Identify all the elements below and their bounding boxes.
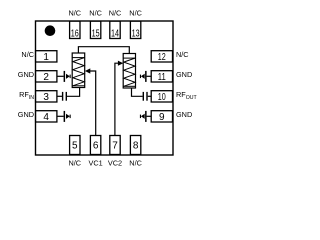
pin 8 xyxy=(130,136,140,155)
wire pin 2 to ground cap xyxy=(57,75,64,77)
wire pin 11 to ground cap xyxy=(147,75,152,77)
pin 5 xyxy=(70,136,80,155)
svg-text:VC2: VC2 xyxy=(108,159,122,168)
ground arrow pin 9 xyxy=(140,114,145,119)
wire C2 to pin 10 xyxy=(148,95,152,97)
svg-text:15: 15 xyxy=(92,28,100,39)
pin 14 xyxy=(110,21,120,39)
pin 12 xyxy=(151,51,172,63)
svg-text:GND: GND xyxy=(176,110,192,119)
ground arrow pin 11 xyxy=(140,74,145,79)
pin 16 xyxy=(70,21,80,39)
pin 9 xyxy=(151,111,172,123)
wire VC2 pin 7 to R2 arrow xyxy=(115,63,118,135)
wire pin 4 to ground cap xyxy=(57,115,64,117)
svg-text:4: 4 xyxy=(43,112,49,123)
svg-text:N/C: N/C xyxy=(69,159,82,168)
svg-text:N/C: N/C xyxy=(69,9,82,18)
pin 1 indicator dot xyxy=(45,25,56,36)
svg-text:2: 2 xyxy=(43,72,49,83)
svg-text:1: 1 xyxy=(43,52,49,63)
svg-text:7: 7 xyxy=(112,141,118,152)
pin 10 xyxy=(151,91,172,103)
ground plate pin 11 xyxy=(145,71,147,82)
pin 11 xyxy=(151,71,172,83)
wire VC1 pin 6 to R1 arrow xyxy=(90,71,96,136)
svg-text:N/C: N/C xyxy=(89,9,102,18)
svg-text:14: 14 xyxy=(111,28,119,39)
pin 2 xyxy=(36,71,57,83)
svg-text:N/C: N/C xyxy=(109,9,122,18)
wire pin 3 to capacitor C1 xyxy=(57,95,62,97)
svg-text:N/C: N/C xyxy=(129,9,142,18)
pin 1 xyxy=(36,51,57,63)
ground arrow pin 2 xyxy=(66,74,71,79)
pin 4 xyxy=(36,111,57,123)
pin 13 xyxy=(130,21,140,39)
arrow into R1 xyxy=(85,68,90,73)
package outline U1 xyxy=(36,21,174,155)
svg-text:GND: GND xyxy=(176,70,192,79)
ground plate pin 4 xyxy=(64,111,66,122)
svg-text:N/C: N/C xyxy=(21,50,34,59)
svg-text:12: 12 xyxy=(158,52,166,63)
pin 7 xyxy=(110,136,120,155)
ground arrow pin 4 xyxy=(66,114,71,119)
ground plate pin 9 xyxy=(145,111,147,122)
capacitor C2 xyxy=(143,92,148,101)
svg-text:13: 13 xyxy=(132,28,140,39)
svg-text:GND: GND xyxy=(18,70,34,79)
pin 6 xyxy=(90,136,100,155)
svg-text:16: 16 xyxy=(71,28,79,39)
svg-text:3: 3 xyxy=(43,92,49,103)
svg-text:VC1: VC1 xyxy=(88,159,102,168)
wire R2 bottom to capacitor C2 xyxy=(132,88,143,96)
ground plate pin 2 xyxy=(64,71,66,82)
capacitor C1 xyxy=(62,92,67,101)
arrow into R2 xyxy=(118,61,123,66)
wire C1 to R1 bottom xyxy=(67,88,80,97)
svg-text:6: 6 xyxy=(93,141,99,152)
pin 15 xyxy=(90,21,100,39)
svg-text:11: 11 xyxy=(158,72,166,83)
variable resistor R2 body xyxy=(123,54,135,89)
svg-text:GND: GND xyxy=(18,110,34,119)
svg-text:N/C: N/C xyxy=(129,159,142,168)
svg-text:5: 5 xyxy=(72,141,78,152)
variable resistor R1 body xyxy=(72,53,85,88)
pin 3 xyxy=(36,91,57,103)
wire pin 9 to ground cap xyxy=(147,115,152,117)
svg-text:10: 10 xyxy=(158,92,166,103)
svg-text:9: 9 xyxy=(159,112,165,123)
svg-text:8: 8 xyxy=(133,141,139,152)
svg-text:N/C: N/C xyxy=(176,50,189,59)
wire top connecting R1 and R2 xyxy=(78,47,129,54)
